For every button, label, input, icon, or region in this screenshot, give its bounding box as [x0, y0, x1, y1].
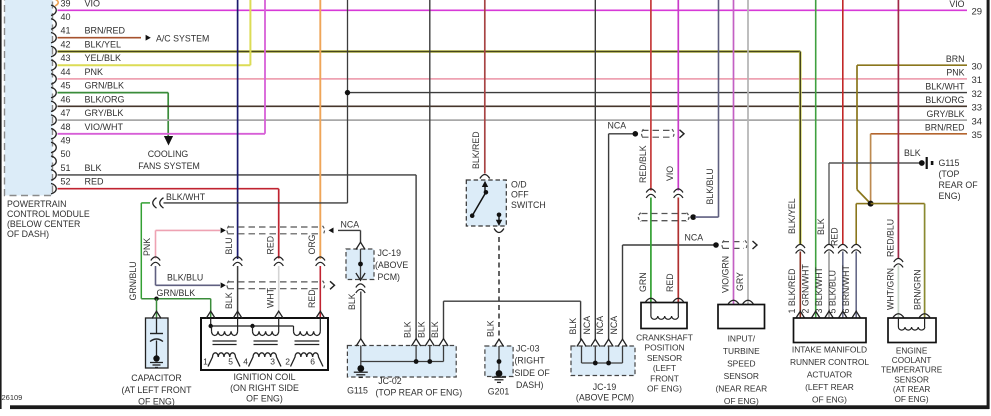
- svg-text:SENSOR: SENSOR: [647, 353, 682, 363]
- svg-text:BLK: BLK: [416, 321, 426, 338]
- right edge wire 30 label: [946, 54, 982, 72]
- wire pin43 YEL/BLK, turns up at x250: [58, 0, 251, 65]
- svg-text:5: 5: [228, 357, 233, 367]
- dashed BLK wire from switch to JC-03: [498, 237, 500, 340]
- wire pin41 BRN/RED to A/C SYSTEM arrow: [58, 35, 151, 41]
- svg-text:JC-03: JC-03: [516, 344, 540, 354]
- coolant sensor entry arcs: [893, 314, 930, 318]
- wire RED/BLK vertical x650.9: [650, 0, 652, 191]
- connector on RED/BLU wire: [894, 258, 903, 262]
- wire pin48 VIO/WHT, turns up at x265: [58, 0, 266, 134]
- svg-text:(NEAR REAR: (NEAR REAR: [715, 383, 767, 393]
- svg-text:RED: RED: [307, 289, 317, 308]
- capacitor entry chevron: [152, 311, 161, 318]
- engine coolant temperature sensor box: [888, 318, 936, 343]
- wire pin44 PNK to right edge 31: [58, 78, 968, 80]
- svg-text:WHT: WHT: [265, 287, 275, 308]
- junction block JC-19 (above PCM, bottom): [571, 346, 635, 376]
- svg-text:3 BLK/WHT: 3 BLK/WHT: [814, 266, 824, 313]
- connector below JC-19: [356, 284, 365, 288]
- wire pin45 GRN/BLK to cooling fans arrow: [58, 93, 174, 146]
- svg-text:OF ENG): OF ENG): [138, 397, 175, 407]
- PCM pin 50: [51, 149, 71, 166]
- PCM pin 45: [51, 81, 124, 98]
- JC-19 label: [375, 248, 408, 282]
- svg-text:OFF: OFF: [511, 190, 529, 200]
- wire GRN/BLU vertical from connector corner down: [141, 203, 150, 299]
- wire GRY vertical: [747, 0, 749, 304]
- wire pin52 RED, turns down at x278.7: [58, 189, 279, 259]
- svg-text:G115: G115: [347, 386, 368, 396]
- PCM pin 46: [51, 94, 125, 111]
- shield dot and BLK/BLU drain wire: [690, 0, 718, 220]
- junction block JC-03: [485, 346, 513, 377]
- cut-off orange wire fragment top edge: [55, 0, 58, 6]
- svg-text:A/C SYSTEM: A/C SYSTEM: [156, 34, 209, 44]
- svg-text:BRN/RED: BRN/RED: [925, 123, 965, 133]
- actuator pin labels: [787, 264, 851, 314]
- svg-text:32: 32: [972, 89, 983, 100]
- right edge wire 31 label: [946, 68, 982, 86]
- turbine sensor label: [715, 333, 767, 406]
- svg-text:CAPACITOR: CAPACITOR: [131, 373, 182, 383]
- svg-text:VIO: VIO: [949, 0, 964, 9]
- junction dot BLK/WHT net: [345, 90, 350, 95]
- svg-text:G201: G201: [488, 387, 510, 397]
- svg-text:GRN/BLK: GRN/BLK: [157, 288, 196, 298]
- coil pin numbers: [203, 357, 315, 367]
- svg-text:RED: RED: [265, 236, 275, 255]
- JC-19b internal bus: [582, 346, 623, 365]
- wire pin47 GRY/BLK to right edge 34: [58, 119, 968, 121]
- svg-text:GRY/BLK: GRY/BLK: [927, 109, 965, 119]
- wire VIO vertical x678.3: [677, 0, 679, 191]
- svg-text:RED: RED: [830, 227, 840, 246]
- svg-text:1: 1: [203, 357, 208, 367]
- svg-text:VIO: VIO: [85, 0, 101, 8]
- svg-text:BRN/GRN: BRN/GRN: [913, 269, 923, 310]
- svg-text:41: 41: [61, 26, 71, 36]
- svg-text:51: 51: [61, 163, 71, 173]
- svg-text:RED/BLK: RED/BLK: [638, 145, 648, 183]
- svg-text:NCA: NCA: [582, 316, 592, 335]
- svg-text:OF ENG): OF ENG): [246, 394, 283, 404]
- svg-text:INPUT/: INPUT/: [728, 333, 756, 343]
- PCM pin 42: [51, 40, 121, 57]
- svg-text:BLK: BLK: [347, 293, 357, 310]
- svg-text:BLK: BLK: [430, 321, 440, 338]
- svg-text:NCA: NCA: [341, 220, 360, 230]
- NCA#1 connector (PNK) with dashed capsule to JC-19: [221, 226, 334, 235]
- O/D OFF SWITCH label: [511, 180, 546, 210]
- junction block JC-19 (above PCM): [346, 249, 374, 280]
- wire BRN/GRN from junction: [871, 204, 925, 318]
- svg-text:49: 49: [61, 136, 71, 146]
- svg-text:BLK: BLK: [224, 292, 234, 309]
- wire GRN/WHT vertical to pin 2: [815, 0, 817, 318]
- connector on pin6 wire: [852, 244, 861, 248]
- svg-text:48: 48: [61, 122, 71, 132]
- connector on RED/BLK wire: [646, 189, 655, 193]
- svg-text:6 BRN/WHT: 6 BRN/WHT: [841, 264, 851, 313]
- wire GRN below connector: [650, 198, 652, 303]
- svg-text:OF ENG): OF ENG): [895, 395, 929, 404]
- JC-19b label: [576, 382, 634, 403]
- wire RED/BLU vertical: [897, 0, 899, 258]
- PCM pin 41: [51, 26, 126, 43]
- svg-text:GRN/BLU: GRN/BLU: [128, 261, 138, 300]
- PCM pin 40: [51, 12, 71, 29]
- svg-text:BLK/RED: BLK/RED: [471, 131, 481, 169]
- junction block JC-02: [347, 346, 456, 378]
- NCA#2 connector symbol: [633, 129, 685, 138]
- svg-text:31: 31: [972, 75, 983, 86]
- svg-text:POWERTRAIN: POWERTRAIN: [7, 199, 66, 209]
- JC-19b entry chevrons: [577, 339, 627, 346]
- svg-text:40: 40: [61, 12, 71, 22]
- right edge wire 32 label: [925, 81, 982, 99]
- svg-text:ACTUATOR: ACTUATOR: [807, 370, 852, 380]
- svg-text:BLK: BLK: [485, 320, 495, 337]
- svg-text:VIO/WHT: VIO/WHT: [85, 122, 124, 132]
- coil primary windings: [212, 318, 321, 336]
- wire pin46 BLK/ORG to right edge 33: [58, 105, 968, 107]
- svg-text:33: 33: [972, 103, 983, 114]
- coil cores: [213, 341, 320, 345]
- svg-text:ENG): ENG): [939, 191, 961, 201]
- wire WHT below connector into coil (from pin52 RED): [278, 266, 280, 318]
- svg-text:BLK/YEL: BLK/YEL: [85, 40, 122, 50]
- connector on pin1 wire: [796, 244, 805, 248]
- input/turbine speed sensor box: [718, 305, 765, 329]
- svg-text:COOLANT: COOLANT: [892, 356, 932, 365]
- wire BRN/WHT from junction to pin 6: [856, 204, 870, 318]
- svg-text:BRN: BRN: [946, 54, 965, 64]
- svg-text:SENSOR: SENSOR: [894, 375, 929, 384]
- ignition coil component box: [201, 318, 328, 370]
- svg-text:FANS SYSTEM: FANS SYSTEM: [138, 161, 200, 171]
- wire BLK from JC-19 down to JC-02: [360, 292, 362, 340]
- svg-text:SIDE OF: SIDE OF: [515, 368, 551, 378]
- svg-text:BLK: BLK: [403, 321, 413, 338]
- inline connector (( on BLK/WHT wire: [153, 198, 157, 208]
- svg-text:46: 46: [61, 94, 71, 104]
- svg-text:OF ENG): OF ENG): [647, 384, 682, 394]
- wire BLK below connector into coil: [237, 266, 239, 318]
- wire BLK/BLU below connector, to NCA: [156, 266, 221, 285]
- svg-text:WHT/GRN: WHT/GRN: [885, 268, 895, 310]
- svg-text:3: 3: [270, 357, 275, 367]
- PCM pin 52: [51, 177, 104, 194]
- wire pin42 BLK/YEL across to corner x800: [58, 50, 801, 53]
- svg-text:42: 42: [61, 40, 71, 50]
- PCM pin 44: [51, 67, 103, 84]
- wire from connector into JC-19 (above PCM): [338, 230, 361, 243]
- svg-text:COOLING: COOLING: [148, 149, 189, 159]
- svg-text:6: 6: [310, 357, 315, 367]
- svg-text:OF ENG): OF ENG): [812, 395, 847, 405]
- JC-02 entry chevrons: [356, 339, 448, 346]
- wire NCA#2: x608.6 up to y134, right to connector: [609, 134, 633, 340]
- svg-text:YEL/BLK: YEL/BLK: [85, 53, 122, 63]
- svg-text:39: 39: [61, 0, 71, 8]
- svg-text:REAR OF: REAR OF: [939, 180, 979, 190]
- dashed connector capsule at crank sensor: [638, 213, 689, 222]
- svg-text:O/D: O/D: [511, 180, 527, 190]
- connector arc below switch: [494, 229, 504, 233]
- svg-text:GRY/BLK: GRY/BLK: [85, 108, 124, 118]
- ignition coil label: [230, 372, 299, 404]
- svg-text:BRN/RED: BRN/RED: [85, 26, 126, 36]
- JC-19 internal wire and node: [356, 249, 365, 280]
- JC-03 entry chevron: [494, 339, 503, 346]
- svg-text:BLK/ORG: BLK/ORG: [85, 94, 125, 104]
- wire WHT/GRN below connector: [897, 266, 899, 318]
- crankshaft position sensor box: [641, 303, 687, 329]
- svg-text:(LEFT REAR: (LEFT REAR: [805, 382, 854, 392]
- crank sensor entry arcs: [646, 298, 684, 302]
- svg-text:2: 2: [285, 357, 290, 367]
- PCM pin 49: [51, 136, 71, 153]
- svg-text:34: 34: [972, 116, 983, 127]
- right edge wire 35 label: [925, 123, 982, 141]
- svg-text:BLK: BLK: [816, 218, 826, 235]
- svg-text:30: 30: [972, 61, 983, 72]
- wire GRN/BLK horizontal to ignition coil: [141, 299, 210, 318]
- wire ORG vertical x320.3 (to ignition coil RED): [319, 0, 321, 259]
- PCM pin 39: [51, 0, 100, 16]
- connector on VIO wire: [674, 189, 683, 193]
- svg-text:BLK/ORG: BLK/ORG: [925, 95, 964, 105]
- svg-text:JC-19: JC-19: [593, 382, 617, 392]
- svg-text:NCA: NCA: [608, 121, 627, 131]
- wire NCA#3: x622.5 up to y245, right to connector: [623, 245, 714, 340]
- junction dot BRN nets: [868, 201, 874, 207]
- coil secondary windings: [208, 353, 323, 367]
- JC-02 internal bus and ground: [357, 346, 443, 372]
- svg-text:(AT LEFT FRONT: (AT LEFT FRONT: [122, 385, 193, 395]
- svg-text:SENSOR: SENSOR: [724, 371, 759, 381]
- svg-text:GRN: GRN: [638, 272, 648, 292]
- svg-text:VIO: VIO: [665, 166, 675, 181]
- wire RED below connector into coil: [319, 266, 321, 318]
- svg-text:BLK/BLU: BLK/BLU: [705, 168, 715, 204]
- JC-19b rotated labels: [568, 316, 619, 335]
- wire RED below connector: [677, 198, 679, 303]
- connector arc above switch: [480, 175, 490, 179]
- svg-text:BLK/WHT: BLK/WHT: [166, 192, 206, 202]
- svg-text:(BELOW CENTER: (BELOW CENTER: [7, 219, 80, 229]
- svg-text:RED: RED: [665, 273, 675, 292]
- svg-text:CONTROL MODULE: CONTROL MODULE: [7, 209, 90, 219]
- svg-text:TEMPERATURE: TEMPERATURE: [881, 366, 943, 375]
- wire BLU vertical x237.6 (to ignition coil BLK): [237, 0, 239, 259]
- svg-text:RED: RED: [85, 177, 105, 187]
- wire BLK/RED vertical to O/D switch: [484, 0, 486, 174]
- COOLING FANS SYSTEM label: [138, 149, 200, 171]
- svg-text:PNK: PNK: [85, 67, 104, 77]
- svg-text:(LEFT: (LEFT: [653, 363, 676, 373]
- svg-text:(AT REAR: (AT REAR: [893, 385, 931, 394]
- wire NCA vertical x595.3 from top: [594, 0, 596, 340]
- svg-text:ORG: ORG: [307, 234, 317, 254]
- svg-text:GRY: GRY: [735, 272, 745, 291]
- svg-text:SPEED: SPEED: [727, 358, 755, 368]
- svg-text:4: 4: [243, 357, 248, 367]
- svg-text:JC-19: JC-19: [378, 248, 402, 258]
- svg-text:PNK: PNK: [946, 68, 964, 78]
- actuator label: [790, 345, 869, 405]
- svg-text:35: 35: [972, 130, 983, 141]
- coolant sensor label: [881, 346, 943, 404]
- svg-text:29: 29: [972, 7, 983, 18]
- svg-text:47: 47: [61, 108, 71, 118]
- wire VIO/GRN vertical: [733, 0, 735, 304]
- svg-text:JC-02: JC-02: [378, 376, 402, 386]
- wire BLK/RED below connector to pin 1: [799, 252, 801, 318]
- PCM label text: [7, 199, 90, 239]
- svg-text:1 BLK/RED: 1 BLK/RED: [787, 269, 797, 314]
- right edge wire 34 label: [927, 109, 983, 127]
- connector on pin5 wire: [838, 244, 847, 248]
- coil entry chevrons: [206, 311, 325, 318]
- svg-text:DASH): DASH): [516, 380, 543, 390]
- svg-text:(TOP REAR OF ENG): (TOP REAR OF ENG): [376, 388, 463, 398]
- svg-text:26109: 26109: [2, 393, 23, 402]
- right edge wire 29 label: [949, 0, 982, 17]
- switch contacts and blade: [470, 181, 502, 226]
- connector on ORG/RED wire: [316, 257, 325, 261]
- link wire JC-02 to JC-19 bottom: [444, 301, 581, 340]
- JC-19 entry chevron: [356, 242, 365, 249]
- svg-text:BLK: BLK: [85, 163, 102, 173]
- crank sensor coil: [651, 303, 679, 320]
- JC-03 internal wire and ground: [492, 346, 506, 382]
- svg-text:BLK/BLU: BLK/BLU: [167, 273, 203, 283]
- labels BLK x3 at JC-02: [403, 321, 440, 338]
- wire pin51 BLK, turns down at x416 into JC-02: [58, 175, 417, 340]
- svg-text:(RIGHT: (RIGHT: [515, 356, 546, 366]
- svg-text:CRANKSHAFT: CRANKSHAFT: [636, 333, 693, 343]
- PCM pin 43: [51, 53, 121, 70]
- svg-text:5 BLK/BLU: 5 BLK/BLU: [828, 270, 838, 314]
- svg-text:52: 52: [61, 177, 71, 187]
- svg-text:(ABOVE: (ABOVE: [375, 260, 408, 270]
- G115 label: [939, 158, 979, 201]
- PCM pin 51: [51, 163, 102, 180]
- svg-text:FRONT: FRONT: [650, 373, 679, 383]
- svg-text:TURBINE: TURBINE: [723, 346, 760, 356]
- svg-text:BLK: BLK: [904, 148, 921, 158]
- svg-text:NCA: NCA: [595, 316, 605, 335]
- svg-text:VIO/GRN: VIO/GRN: [720, 256, 730, 293]
- svg-text:BLK/WHT: BLK/WHT: [925, 81, 965, 91]
- crankshaft sensor label: [636, 333, 693, 394]
- wire BLK/WHT segment from junction dot to right edge 32: [348, 92, 968, 94]
- ground G115 at JC-02: [354, 372, 368, 377]
- svg-text:G115: G115: [939, 158, 960, 168]
- svg-text:(ABOVE PCM): (ABOVE PCM): [576, 393, 634, 403]
- svg-text:OF ENG): OF ENG): [724, 396, 759, 406]
- ground G115 symbol: [919, 157, 934, 169]
- coil internal bus: [209, 318, 294, 328]
- wire pin39 VIO to right edge 29: [58, 9, 968, 11]
- wire BLK to ground G115: [829, 162, 920, 164]
- wire BLK/YEL vertical x800.3 down to actuator pin1: [799, 52, 802, 245]
- turbine sensor entry arcs: [728, 300, 753, 304]
- JC-02 label: [376, 376, 463, 398]
- svg-text:ENGINE: ENGINE: [896, 346, 928, 355]
- svg-text:RED/BLU: RED/BLU: [885, 219, 895, 257]
- junction dot to capacitor: [154, 297, 158, 301]
- connector on BLU wire: [233, 257, 242, 261]
- actuator entry chevrons: [796, 311, 861, 318]
- wire BLK vertical x429.8 top to JC-02: [429, 0, 431, 340]
- svg-text:SWITCH: SWITCH: [511, 200, 546, 210]
- O/D off switch box: [466, 180, 506, 226]
- NCA#3 connector symbol: [713, 240, 757, 249]
- svg-text:(ON RIGHT SIDE: (ON RIGHT SIDE: [230, 383, 299, 393]
- svg-text:NCA: NCA: [685, 233, 704, 243]
- JC-03 label: [515, 344, 551, 391]
- svg-text:POSITION: POSITION: [644, 343, 684, 353]
- svg-text:BLK/YEL: BLK/YEL: [787, 198, 797, 234]
- svg-text:GRN/BLK: GRN/BLK: [85, 81, 125, 91]
- NCA#4 connector (BLK/BLU) dashed capsule: [221, 281, 335, 290]
- capacitor internal ground: [150, 363, 163, 368]
- capacitor component box: [146, 318, 169, 368]
- connector on pin3 wire: [824, 244, 833, 248]
- coolant sensor coil: [898, 318, 924, 330]
- svg-text:BLU: BLU: [224, 237, 234, 254]
- wire BRN from corner x857 to right edge 30, down to junction: [857, 65, 967, 203]
- svg-text:50: 50: [61, 149, 71, 159]
- wire BRN/RED from corner x870.6 to right edge 35, down to junction dot: [871, 134, 967, 204]
- svg-text:2 GRN/WHT: 2 GRN/WHT: [801, 264, 811, 314]
- bottom frame bar: [10, 405, 989, 409]
- svg-text:43: 43: [61, 53, 71, 63]
- svg-text:NCA: NCA: [609, 316, 619, 335]
- right edge wire 33 label: [925, 95, 982, 113]
- wire BLK from G115 line down to pin 3: [828, 163, 830, 318]
- wire PNK corner to NCA connector: [156, 230, 221, 258]
- PCM pin 47: [51, 108, 123, 125]
- svg-text:IGNITION COIL: IGNITION COIL: [233, 372, 295, 382]
- svg-text:BLK: BLK: [568, 318, 578, 335]
- svg-text:OF DASH): OF DASH): [7, 229, 49, 239]
- wire RED vertical to pin 5: [842, 0, 844, 318]
- wire BLK/WHT vertical x347.5 from top through dot down to y203: [164, 0, 348, 203]
- svg-text:45: 45: [61, 81, 71, 91]
- PCM pin 48: [51, 122, 123, 139]
- wire stub down to capacitor: [156, 299, 158, 318]
- right frame line: [987, 0, 990, 409]
- connector on PNK wire: [151, 257, 160, 261]
- svg-text:PCM): PCM): [378, 272, 401, 282]
- capacitor symbol: [150, 318, 163, 362]
- svg-text:44: 44: [61, 67, 71, 77]
- capacitor label: [122, 373, 193, 407]
- intake manifold runner control actuator box: [794, 318, 867, 343]
- svg-text:(TOP: (TOP: [939, 169, 960, 179]
- svg-text:RUNNER CONTROL: RUNNER CONTROL: [790, 357, 869, 367]
- powertrain control module (PCM) connector box: [5, 0, 53, 196]
- svg-text:PNK: PNK: [142, 238, 152, 256]
- left frame line: [0, 0, 2, 409]
- connector on RED/WHT wire: [274, 257, 283, 261]
- svg-text:INTAKE MANIFOLD: INTAKE MANIFOLD: [792, 345, 867, 355]
